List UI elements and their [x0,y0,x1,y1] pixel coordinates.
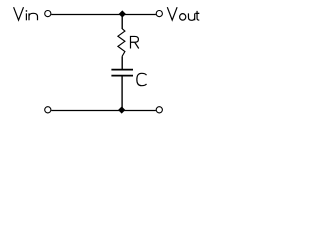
terminal bottom-left (open circle) [45,107,51,113]
label Vout [167,7,199,20]
terminal output (top-right open circle) [156,11,162,17]
capacitor C plate bottom [111,75,133,77]
resistor R (zigzag) [118,29,125,57]
wire top rail [51,14,156,16]
label Vin [14,7,38,20]
wire from capacitor to bottom node [121,76,123,111]
terminal input (top-left open circle) [45,11,51,17]
wire from top node down to resistor [121,15,123,30]
label C [137,73,147,85]
junction bottom node (diamond dot) [118,106,125,113]
label R [131,36,139,48]
wire from resistor to capacitor [121,56,123,69]
capacitor C plate top [111,69,133,71]
terminal bottom-right (open circle) [156,107,162,113]
junction top node (diamond dot) [119,10,126,17]
wire bottom rail [51,110,156,112]
